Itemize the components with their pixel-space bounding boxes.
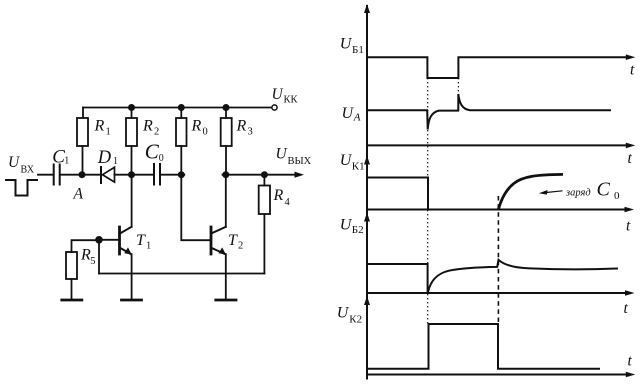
node dot under R0 xyxy=(178,171,185,178)
wire R5 top to base node xyxy=(72,240,100,252)
input pulse symbol xyxy=(6,180,37,196)
wire R0 top xyxy=(180,108,182,119)
wire node B to C0 xyxy=(132,174,154,176)
wire R2 top xyxy=(131,108,133,119)
wire R4 top to output node xyxy=(263,175,265,186)
wire top supply rail xyxy=(83,107,272,109)
svg-text:U: U xyxy=(340,36,353,53)
arrow vertical axis UK1 xyxy=(364,156,370,165)
ground under T1 xyxy=(122,299,142,302)
svg-text:К1: К1 xyxy=(352,160,365,172)
ground under T2 xyxy=(216,299,236,302)
charge C0 curve xyxy=(498,174,563,209)
transistor T2 collector wire xyxy=(225,175,227,227)
capacitor C1 xyxy=(54,165,60,185)
svg-text:ВХ: ВХ xyxy=(21,164,35,175)
node dot under R2 xyxy=(128,171,135,178)
svg-text:2: 2 xyxy=(238,241,243,252)
resistor R2 xyxy=(126,118,137,146)
svg-text:t: t xyxy=(630,62,635,79)
resistor R4 xyxy=(259,186,270,215)
svg-text:КК: КК xyxy=(284,94,299,105)
transistor T1 emitter diagonal xyxy=(120,248,131,254)
terminal Ukk circle xyxy=(272,105,277,110)
graph UK1 t-axis xyxy=(367,209,630,211)
resistor R3 xyxy=(221,118,232,146)
svg-text:R: R xyxy=(236,118,247,135)
wire C0 to node C xyxy=(161,174,185,176)
svg-text:0: 0 xyxy=(614,190,620,202)
transistor T2 collector diagonal xyxy=(212,227,226,233)
node dot T2 collector xyxy=(222,171,229,178)
wire output line xyxy=(223,174,298,176)
diode D1 xyxy=(100,167,102,183)
node dot R4 top xyxy=(261,171,268,178)
graph UB2 waveform xyxy=(367,260,617,293)
svg-text:U: U xyxy=(337,305,350,322)
svg-text:t: t xyxy=(628,150,633,167)
resistor R1 xyxy=(77,118,88,146)
graph UB2 t-axis xyxy=(367,292,630,294)
svg-text:5: 5 xyxy=(90,256,95,267)
svg-text:2: 2 xyxy=(154,126,159,137)
svg-text:0: 0 xyxy=(203,126,208,137)
wire input to C1 xyxy=(38,174,53,176)
node dot rail R0 xyxy=(178,104,185,111)
capacitor C0 xyxy=(154,164,160,185)
svg-text:1: 1 xyxy=(113,156,118,167)
dotted timeline input end xyxy=(457,78,459,93)
wire R3 top xyxy=(225,108,227,119)
graph UA t-axis xyxy=(367,144,630,146)
svg-text:T: T xyxy=(228,232,238,249)
transistor T2 base drop wire xyxy=(181,175,210,241)
transistor T1 base bar xyxy=(118,227,121,254)
wire rail corner down to R1 xyxy=(82,108,84,119)
dotted timeline t1 xyxy=(427,78,429,324)
arrow vertical axis UB2 xyxy=(364,213,370,222)
svg-text:R: R xyxy=(191,118,202,135)
svg-text:заряд: заряд xyxy=(565,188,591,199)
arrow t-axis 4 xyxy=(625,290,635,296)
vertical axis common xyxy=(366,6,368,379)
wire R1 bottom to node A xyxy=(82,146,84,175)
svg-text:C: C xyxy=(597,179,611,201)
graph UK1 waveform xyxy=(367,178,428,210)
transistor T1 collector diagonal xyxy=(120,227,131,233)
feedback wire base T1 down xyxy=(98,240,100,274)
transistor T1 emitter arrowhead xyxy=(124,247,131,254)
svg-text:R: R xyxy=(94,118,105,135)
wire node A to D1 xyxy=(82,174,100,176)
output arrowhead xyxy=(295,172,305,178)
svg-text:C: C xyxy=(145,140,160,164)
svg-text:U: U xyxy=(8,154,21,171)
svg-text:4: 4 xyxy=(285,197,291,208)
svg-text:R: R xyxy=(142,118,153,135)
transistor T2 emitter arrowhead xyxy=(219,247,226,254)
svg-text:U: U xyxy=(342,105,355,122)
transistor T1 collector wire xyxy=(131,175,133,227)
transistor T2 emitter diagonal xyxy=(212,248,226,254)
arrow vertical axis top xyxy=(364,4,370,13)
resistor R5 xyxy=(66,252,77,279)
transistor T1 emitter wire xyxy=(131,254,133,299)
feedback wire up to R4 xyxy=(263,214,265,274)
wire R2 bottom xyxy=(131,146,133,175)
svg-text:3: 3 xyxy=(248,126,253,137)
node A dot xyxy=(79,171,86,178)
arrow t-axis 2 xyxy=(626,143,636,149)
ground under R5 xyxy=(62,299,82,302)
wire R3 bottom xyxy=(225,146,227,175)
transistor T2 emitter wire xyxy=(225,254,227,299)
arrow vertical axis UK2 xyxy=(364,296,370,305)
feedback wire bottom horizontal xyxy=(99,273,264,275)
svg-text:R: R xyxy=(273,187,284,204)
transistor T1 base wire xyxy=(99,239,118,241)
svg-text:К2: К2 xyxy=(349,313,362,325)
svg-text:D: D xyxy=(97,148,112,168)
graph UK2 t-axis xyxy=(367,374,630,376)
svg-text:A: A xyxy=(73,186,84,203)
transistor T2 base bar xyxy=(210,227,213,254)
arrow t-axis 3 xyxy=(625,207,635,213)
graph UK2 waveform xyxy=(367,324,599,369)
node dot T1 base xyxy=(95,236,103,244)
wire C1 to node A xyxy=(61,174,82,176)
wire D1 to node B xyxy=(115,174,131,176)
svg-text:Б2: Б2 xyxy=(352,224,364,236)
svg-text:0: 0 xyxy=(159,153,164,164)
graph UB1 waveform with t-axis xyxy=(367,57,630,78)
svg-text:T: T xyxy=(136,232,146,249)
svg-text:1: 1 xyxy=(106,126,111,137)
wire R5 bottom xyxy=(71,279,73,299)
arrow t-axis 1 xyxy=(626,54,636,60)
svg-text:Б1: Б1 xyxy=(352,44,364,56)
annotation arrow zaryad xyxy=(545,191,563,193)
svg-text:ВЫХ: ВЫХ xyxy=(288,156,312,167)
svg-text:1: 1 xyxy=(64,156,69,167)
wire R0 bottom xyxy=(180,146,182,175)
svg-text:A: A xyxy=(353,112,361,124)
resistor R0 xyxy=(176,118,187,146)
svg-text:t: t xyxy=(624,300,629,317)
svg-text:1: 1 xyxy=(146,241,151,252)
svg-text:t: t xyxy=(628,353,633,370)
graph UA level with dip and spike xyxy=(367,94,610,130)
svg-text:t: t xyxy=(626,218,631,235)
node dot rail R3 xyxy=(223,104,230,111)
arrow t-axis 5 xyxy=(626,372,636,378)
node dot rail R2 xyxy=(128,104,135,111)
dashed timeline t2 xyxy=(497,196,499,324)
